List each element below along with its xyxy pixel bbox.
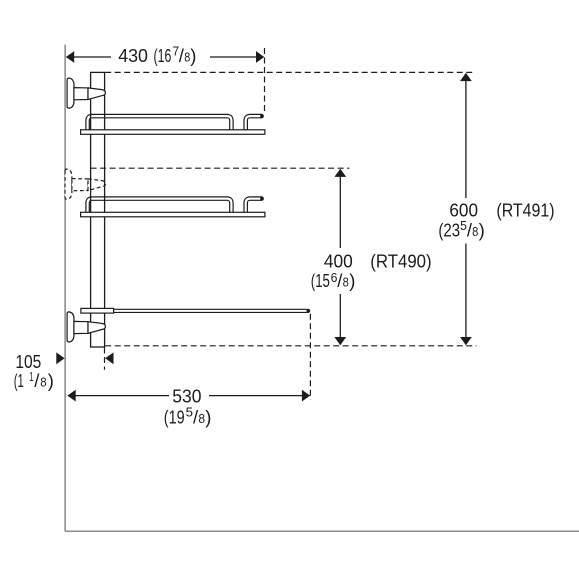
svg-text:8: 8 [40, 375, 46, 389]
extension dashed line top (y=72.4) [105, 71, 475, 73]
middle shelf plate [81, 212, 265, 217]
svg-text:530: 530 [172, 386, 201, 407]
svg-text:): ) [349, 270, 355, 291]
post (vertical bar) [91, 72, 105, 347]
bottom bar mounting plate [81, 308, 114, 313]
svg-text:/: / [34, 370, 40, 391]
bottom towel bar tube [112, 309, 310, 313]
middle wall bracket (phantom, dashed) [65, 169, 105, 199]
svg-text:): ) [205, 407, 211, 428]
svg-text:1: 1 [29, 370, 33, 384]
svg-text:8: 8 [343, 275, 349, 289]
svg-text:8: 8 [198, 412, 205, 426]
dimension text 430 (16 7/8) [118, 45, 196, 67]
middle shelf hook [246, 199, 262, 214]
dimension line 400 [334, 169, 346, 346]
svg-text:): ) [190, 45, 196, 66]
dimension line 530 [67, 390, 310, 402]
svg-text:(16: (16 [154, 45, 172, 66]
top shelf plate [81, 130, 265, 135]
svg-text:(RT490): (RT490) [370, 250, 431, 271]
extension dashed line bottom (y=345.8) [105, 345, 476, 347]
svg-text:(23: (23 [438, 220, 460, 241]
dimension arrows 105 [56, 352, 113, 364]
svg-text:): ) [48, 370, 54, 391]
dimension line 600 [460, 73, 472, 345]
dimension line 430 [66, 51, 264, 63]
floor line [65, 530, 579, 532]
dimension text 600 (RT491) [438, 200, 554, 241]
svg-text:430: 430 [118, 45, 148, 66]
extension dashed vertical at x=264.5 [264, 48, 266, 112]
wall line [64, 45, 66, 532]
extension dashed line middle (y=168.2) [91, 167, 350, 169]
bottom wall bracket [67, 312, 105, 342]
svg-text:(RT491): (RT491) [496, 200, 554, 221]
top shelf rail tube [88, 116, 232, 131]
svg-text:): ) [479, 220, 485, 241]
svg-text:600: 600 [449, 200, 478, 221]
svg-text:400: 400 [324, 250, 353, 271]
svg-text:8: 8 [472, 225, 478, 239]
extension dashed vertical at x=310.4 [309, 314, 311, 400]
dimension text 400 (RT490) [311, 250, 432, 291]
svg-text:(1: (1 [14, 370, 24, 391]
top wall bracket [67, 78, 105, 108]
svg-text:(15: (15 [311, 270, 330, 291]
dimension text 530 (19 5/8) [164, 386, 212, 428]
dimension text 105 (1 1/8) [14, 351, 54, 391]
svg-text:(19: (19 [164, 407, 185, 428]
extension dashed vertical at x=104.5 [104, 348, 106, 370]
middle shelf rail tube [88, 199, 232, 214]
top shelf hook [246, 116, 262, 131]
